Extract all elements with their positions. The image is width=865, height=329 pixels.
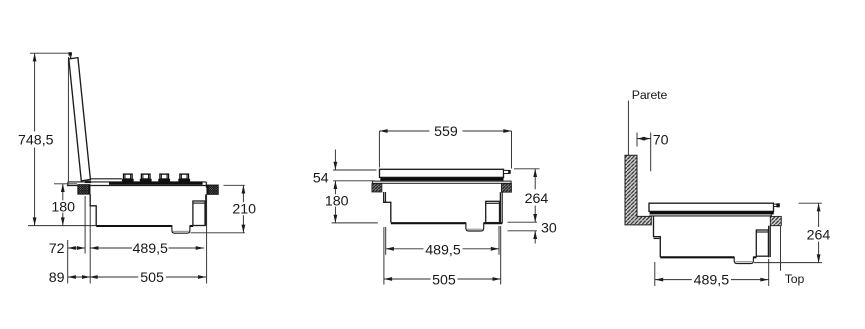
extension line 559 left [378, 131, 380, 168]
burner knob 1 [122, 174, 134, 182]
worktop cut section right (diag hatch) [501, 184, 511, 193]
lid closed [380, 169, 504, 177]
dimension line 70 [637, 138, 651, 140]
svg-text:89: 89 [49, 270, 65, 286]
dimension line 180 [62, 184, 64, 226]
tub left wall with step [384, 192, 391, 222]
dimension line 489,5 middle [386, 248, 499, 250]
tub bottom right view [660, 256, 756, 258]
extension line 54 top [333, 169, 376, 171]
wall and worktop section (diag hatch) [625, 155, 651, 225]
junction box bracket [486, 201, 500, 222]
extension line 70 left [636, 133, 638, 147]
worktop cut section right (diag hatch) [770, 216, 781, 225]
svg-text:210: 210 [232, 201, 256, 217]
extension line 489,5 right view left [654, 262, 656, 286]
arrow 30 bottom [534, 231, 536, 244]
svg-text:748,5: 748,5 [18, 132, 54, 148]
lid (open, leaning) [69, 58, 91, 181]
extension line 264 bottom right view [754, 262, 822, 264]
extension line 30 top [508, 221, 538, 223]
gas inlet bump [466, 223, 484, 232]
hob surface right edge [205, 182, 207, 188]
dimension line 89 [68, 276, 91, 278]
extension line counter top right (210 top) [224, 184, 245, 186]
extension line surface top (180 top) [54, 183, 77, 185]
extension line 489,5 right view right [768, 259, 770, 286]
extension line bump bottom (210 bottom) [191, 232, 245, 234]
dimension line 489,5 right view [655, 279, 769, 281]
svg-text:559: 559 [434, 124, 458, 140]
lid hinge block [85, 181, 91, 184]
svg-text:180: 180 [325, 193, 349, 209]
dimension line 210 [242, 185, 244, 233]
extension line right (tub right) [206, 194, 208, 283]
gas inlet bump (bottom) [172, 225, 190, 233]
dimension line 489,5 left view [90, 247, 204, 249]
lid hinge tab [774, 204, 778, 206]
extension line 559 right [511, 131, 513, 169]
svg-text:Parete: Parete [632, 88, 668, 102]
junction box bracket right view [756, 230, 768, 256]
lid seal band [380, 178, 503, 181]
tub bottom [96, 225, 193, 227]
burner knob 4 [178, 174, 190, 182]
extension line 70 right [650, 133, 652, 172]
dimension line 505 middle [384, 278, 501, 280]
extension line 180 bottom [332, 222, 378, 224]
tub bottom [391, 222, 502, 224]
dimension line 72 [68, 247, 85, 249]
extension line A (surface left edge) [67, 240, 69, 284]
dimension line 264 middle [534, 169, 536, 222]
hinge strip line [91, 178, 122, 180]
svg-text:54: 54 [313, 170, 329, 186]
lid handle knob [69, 52, 72, 55]
tub left wall with step right view [654, 216, 661, 257]
worktop cut section left (diag hatch) [372, 184, 382, 193]
hob surface bottom line [67, 185, 206, 187]
lid hinge tab right [504, 170, 509, 173]
svg-text:264: 264 [525, 191, 549, 207]
dimension line 505 left view [90, 276, 207, 278]
svg-text:Top: Top [785, 272, 805, 286]
extension line B (tub wall upper) [84, 196, 86, 254]
tub right wall [205, 194, 207, 225]
leader line Top [780, 226, 782, 271]
dimension line 748,5 [34, 53, 36, 225]
extension line 54 bottom / 180 top [333, 180, 374, 182]
extension lines 489,5/505 middle right [499, 226, 501, 285]
tub right wall [499, 192, 501, 223]
lid seal band right view [650, 211, 774, 214]
dimension line 264 right view [818, 203, 820, 262]
svg-text:489,5: 489,5 [425, 242, 461, 258]
extension line 30 bottom [508, 230, 538, 232]
extension line 264 top [514, 168, 540, 170]
svg-text:264: 264 [807, 227, 831, 243]
gas inlet bump right view [734, 257, 753, 264]
surface line right view [649, 214, 771, 216]
extension line C (tub wall) [89, 206, 91, 283]
svg-text:72: 72 [49, 241, 65, 257]
leader line Parete [627, 101, 629, 156]
arrow 54 top [334, 150, 336, 171]
junction box bracket right [193, 201, 205, 226]
svg-text:505: 505 [432, 272, 456, 288]
svg-text:70: 70 [653, 132, 669, 148]
extension line tub bottom (180/748,5 bottom) [28, 225, 97, 227]
burner knob 3 [158, 174, 170, 182]
tub left wall with step [90, 194, 96, 226]
hob surface top line [68, 181, 206, 183]
surface plate [372, 181, 511, 183]
worktop cut section right (crosshatch) [207, 185, 218, 194]
svg-text:489,5: 489,5 [132, 241, 168, 257]
extension line 264 top right view [799, 202, 822, 204]
hob surface left edge [67, 182, 69, 186]
tub right wall right view [768, 226, 770, 258]
svg-text:30: 30 [541, 221, 557, 237]
svg-text:505: 505 [140, 270, 164, 286]
lid closed right view [649, 203, 774, 211]
svg-text:489,5: 489,5 [694, 273, 730, 289]
extension line top of lid (748,5 top) [30, 52, 70, 54]
worktop cut section left (crosshatch) [78, 185, 90, 195]
dimension line 559 [379, 130, 511, 132]
burner knob 2 [140, 174, 152, 182]
hob surface seal band [109, 182, 203, 185]
svg-text:180: 180 [51, 199, 75, 215]
dimension line 180 middle [334, 181, 336, 223]
extension lines 489,5/505 middle left [384, 227, 386, 285]
extension line lid-to-surface (left edge) [67, 57, 69, 182]
